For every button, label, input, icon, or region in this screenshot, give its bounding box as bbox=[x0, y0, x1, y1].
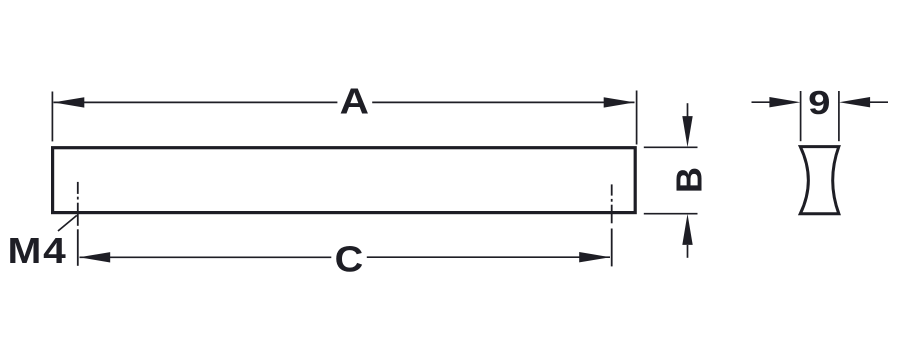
arrowhead B upper bbox=[682, 116, 692, 147]
svg-text:9: 9 bbox=[808, 84, 830, 121]
extension line top of dimension B bbox=[644, 146, 698, 148]
dimension line A left segment bbox=[54, 101, 338, 103]
extension line left of dimension 9 bbox=[800, 91, 802, 141]
extension line right of dimension A bbox=[636, 91, 638, 145]
arrowhead B lower bbox=[682, 214, 692, 245]
svg-text:B: B bbox=[669, 167, 710, 193]
centre line of left fixing hole (dash-dot) bbox=[77, 182, 79, 266]
handle front view outline bbox=[53, 148, 636, 213]
centre line of right fixing hole (dash-dot) bbox=[611, 184, 613, 266]
extension line right of dimension 9 bbox=[838, 91, 840, 141]
handle side profile view (waisted section) bbox=[800, 147, 839, 214]
svg-text:C: C bbox=[335, 240, 364, 280]
arrowhead A left bbox=[53, 97, 84, 107]
dimension B upper arrow tail bbox=[687, 103, 689, 118]
dimension 9 right arrow tail bbox=[869, 101, 888, 103]
arrowhead 9 left bbox=[769, 97, 800, 107]
arrowhead 9 right bbox=[839, 97, 870, 107]
dimension line C left segment bbox=[80, 256, 332, 258]
arrowhead A right bbox=[604, 97, 635, 107]
svg-text:M4: M4 bbox=[8, 231, 68, 271]
arrowhead C right bbox=[579, 252, 610, 262]
dimension line A right segment bbox=[372, 101, 634, 103]
arrowhead C left bbox=[79, 252, 110, 262]
svg-text:A: A bbox=[340, 82, 369, 122]
extension line left of dimension A bbox=[51, 92, 53, 142]
dimension B lower arrow tail bbox=[687, 245, 689, 258]
dimension 9 left arrow tail bbox=[752, 101, 772, 103]
leader line from M4 to hole centre bbox=[58, 215, 77, 231]
dimension line C right segment bbox=[367, 256, 610, 258]
extension line bottom of dimension B bbox=[644, 213, 698, 215]
